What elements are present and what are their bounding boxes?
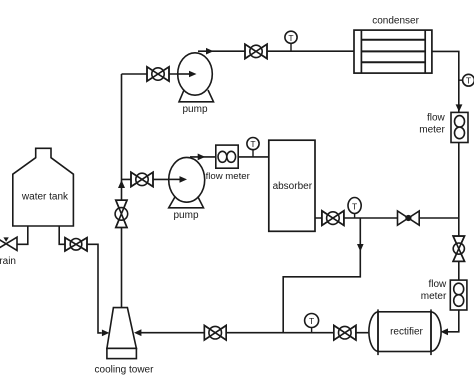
rectifier: [369, 309, 441, 355]
arrow inside pump P1: [178, 71, 197, 78]
temperature indicator T1: [285, 31, 297, 51]
arrow left into rectifier: [441, 328, 448, 335]
valve V8 with solid plug: [398, 211, 420, 225]
arrow right into cooling tower left side: [102, 330, 109, 337]
svg-text:T: T: [309, 316, 314, 326]
temperature indicator T4: [348, 198, 361, 219]
absorber: [269, 140, 315, 231]
svg-text:meter: meter: [421, 291, 447, 302]
temperature indicator T5: [305, 314, 319, 333]
valve V2 P1 discharge: [245, 44, 267, 58]
arrow P1 outlet: [206, 48, 214, 55]
wire tank right leg: [59, 226, 102, 333]
svg-text:pump: pump: [182, 104, 207, 115]
wire right vertical into rectifier: [447, 310, 459, 332]
water tank: [13, 148, 74, 226]
wire tank left leg to drain: [17, 226, 28, 244]
svg-text:T: T: [250, 139, 255, 149]
valve V6 drain: [0, 237, 17, 250]
svg-text:condenser: condenser: [372, 15, 419, 26]
svg-text:absorber: absorber: [273, 181, 313, 192]
svg-text:cooling tower: cooling tower: [95, 364, 155, 375]
svg-text:rectifier: rectifier: [390, 326, 423, 337]
wire absorber drain branch down: [283, 218, 360, 333]
wire absorber outlet line: [315, 217, 459, 219]
valve V7 absorber outlet: [322, 211, 344, 226]
wire condenser outlet elbow down: [432, 51, 459, 112]
arrow P2 outlet: [198, 154, 206, 161]
svg-text:flow: flow: [427, 113, 446, 124]
svg-text:water tank: water tank: [21, 192, 69, 203]
arrow down on absorber drain branch: [357, 244, 364, 252]
wire pump P2 inlet branch: [122, 178, 169, 180]
svg-text:meter: meter: [419, 125, 445, 136]
valve V10 bottom line left: [204, 325, 226, 340]
svg-text:pump: pump: [173, 210, 198, 221]
arrow inside pump P2: [169, 176, 187, 183]
wire main vertical cooling water supply: [121, 74, 123, 308]
valve V5 tank outlet: [65, 238, 87, 251]
condenser: [354, 30, 432, 73]
temperature indicator T2: [459, 74, 474, 86]
svg-text:flow meter: flow meter: [206, 171, 251, 182]
svg-text:drain: drain: [0, 256, 16, 267]
temperature indicator T3: [247, 138, 259, 157]
svg-text:T: T: [352, 201, 357, 211]
svg-text:flow: flow: [429, 279, 448, 290]
flow meter FM2 right bottom: [450, 280, 467, 310]
flow meter FM1 right top: [451, 112, 468, 142]
wire pump P1 outlet to condenser: [198, 50, 354, 52]
pump P1: [178, 53, 214, 102]
arrow left into cooling tower right side: [134, 329, 141, 336]
valve V4 vertical on cooling water line: [115, 200, 128, 227]
valve V1 P1 inlet: [147, 67, 169, 81]
wire pump P1 inlet branch: [122, 73, 179, 75]
svg-text:T: T: [288, 33, 293, 43]
cooling tower: [107, 308, 136, 359]
valve V11 bottom line right: [334, 325, 356, 340]
arrow up on main vertical below P2 branch: [118, 180, 125, 188]
valve V9 vertical on right line: [453, 236, 464, 261]
flow meter FM0 after pump P2: [216, 145, 238, 168]
valve V3 P2 inlet: [131, 172, 153, 186]
wire right vertical flowmeter FM1 to bottom: [458, 143, 460, 311]
wire pump P2 outlet to absorber: [190, 156, 269, 158]
arrow down into flow meter FM1: [456, 104, 463, 111]
pump P2: [169, 157, 205, 207]
wire bottom return line: [141, 332, 368, 334]
svg-text:T: T: [466, 76, 471, 86]
